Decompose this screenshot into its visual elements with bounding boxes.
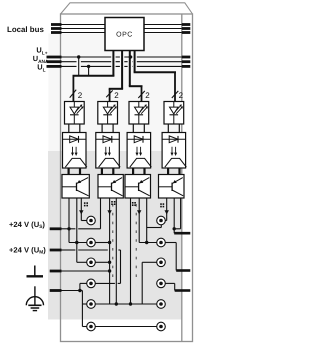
dashed separator line right <box>135 204 137 281</box>
+24V U_S feed line <box>50 228 101 230</box>
wire drop from rail U_L to ch1 bundle <box>87 65 90 75</box>
terminal point 1.2 <box>87 238 96 247</box>
PE feed line branching to terminals 1.4, 1.5, 1.6 <box>50 283 87 326</box>
terminal point 1.3 <box>87 258 96 267</box>
optocoupler box channel 2 <box>96 133 120 169</box>
wire LED box to optocoupler channel 1 <box>69 124 80 133</box>
link terminal 2.4 to right PE stub <box>165 283 190 290</box>
svg-text:+24 V (UM): +24 V (UM) <box>9 245 46 255</box>
wire OPC to ch4 (2-wire bundle) <box>134 51 176 102</box>
svg-text:OPC: OPC <box>116 32 133 39</box>
wire ch3 output w1 to row5 bus <box>130 198 132 304</box>
wire ch2 output w1 to U_S line <box>100 198 102 229</box>
wire ch1 output w2 to terminal 1.3 <box>77 198 87 262</box>
wire OPC to ch2 (2-wire bundle) <box>109 51 123 102</box>
wire LED box to optocoupler channel 4 <box>168 124 179 133</box>
gray area right edge line <box>181 14 183 342</box>
grid mark ch2 <box>111 201 115 205</box>
GND feed line <box>50 269 112 272</box>
wire ch4 output w2 to right supply stub <box>173 198 175 233</box>
svg-text:2: 2 <box>179 91 184 100</box>
grid mark ch4 <box>160 203 164 207</box>
grid mark ch1 <box>84 202 88 206</box>
svg-text:2: 2 <box>114 91 119 100</box>
dashed separator line left <box>112 204 114 281</box>
junction dot rail U_L+ ch3 drop <box>129 55 132 58</box>
protective earth symbol <box>26 286 43 310</box>
wire ch2 output w3 to row5 bus with GND tap <box>115 198 117 304</box>
+24V U_M feed line to terminal 1.4 <box>50 250 121 283</box>
wire crossing gaps on rails <box>77 56 137 68</box>
wire LED box to optocoupler channel 3 <box>133 124 144 133</box>
module top face <box>61 3 193 14</box>
wire ch4 output w3 joins w2 <box>173 198 181 231</box>
rail U_ANA <box>47 61 191 63</box>
wire optocoupler to amplifier channel 1 <box>69 168 80 175</box>
amplifier transistor box Q2 <box>98 175 123 199</box>
svg-text:+24 V (US): +24 V (US) <box>9 220 45 230</box>
wire optocoupler to amplifier channel 4 <box>168 168 179 175</box>
terminal point 2.2 <box>157 238 166 247</box>
light module interior background <box>48 34 182 152</box>
wire ch1 output w3 (arrow) to terminal 1.1 <box>79 198 87 221</box>
joint terminal 1.3 right segment to ch2 w2 <box>95 261 111 264</box>
terminal point 2.1 <box>157 216 166 225</box>
gray terminal background <box>48 151 182 320</box>
terminal point 2.3 <box>157 258 166 267</box>
terminal point 1.4 <box>87 279 96 288</box>
LED indicator box channel 4 <box>164 102 184 125</box>
riser from row5 bus to terminal 2.3 <box>142 262 157 304</box>
junction dot ch1 w2 on row2 line <box>75 241 78 244</box>
slash 2-mark ch1 <box>70 90 83 100</box>
wire LED box to optocoupler channel 2 <box>102 124 113 133</box>
rail U_L+ <box>47 56 191 58</box>
wire ch3 output w3 joins row2 line and terminal 2.1 <box>145 198 161 244</box>
bus row5 <box>95 302 157 305</box>
wire OPC to ch3 (2-wire bundle) <box>129 51 143 102</box>
local bus line 3 <box>51 32 190 34</box>
svg-text:2: 2 <box>145 91 150 100</box>
LED indicator box channel 1 <box>65 102 85 125</box>
LED indicator box channel 2 <box>98 102 118 125</box>
terminal point 2.4 <box>157 279 166 288</box>
module body front face <box>61 14 193 342</box>
slash 2-mark ch3 <box>138 91 150 100</box>
terminal point 2.5 <box>157 300 166 309</box>
rail U_L <box>47 65 191 67</box>
amplifier transistor box Q3 <box>125 175 151 199</box>
optocoupler box channel 3 <box>127 133 151 169</box>
wire ch2 output w2 (arrow) through terminal row3 joint to row5 bus <box>107 198 111 304</box>
optocoupler box channel 4 <box>162 133 186 169</box>
terminal point 1.1 <box>87 216 96 225</box>
wire ch3 output w2 (arrow) to terminal 2.2 <box>137 198 157 243</box>
svg-text:UL+: UL+ <box>36 46 47 57</box>
bus row6 <box>95 326 157 328</box>
LED indicator box channel 3 <box>129 102 149 125</box>
ground symbol <box>27 266 44 277</box>
wire OPC to ch1 (2-wire bundle) <box>73 51 115 102</box>
junction dot ch1 w1 / U_S <box>67 227 70 230</box>
link terminal 2.2 to right GND stub <box>165 243 190 271</box>
wire ch1 output w1 to U_S tap and terminal 1.2 <box>69 198 111 244</box>
local bus line 1 <box>51 24 190 26</box>
svg-text:2: 2 <box>78 91 83 100</box>
amplifier transistor box Q4 <box>159 175 185 199</box>
local bus line 2 <box>51 28 190 30</box>
slash 2-mark ch2 <box>106 90 119 100</box>
grid mark ch3 <box>132 202 136 206</box>
svg-text:Local bus: Local bus <box>7 25 44 34</box>
optocoupler box channel 1 <box>63 133 87 169</box>
amplifier transistor box Q1 <box>62 175 89 199</box>
thick supply stub right edge y233 <box>174 232 190 235</box>
terminal point 2.6 <box>157 322 166 331</box>
slash 2-mark ch4 <box>172 91 184 100</box>
terminal point 1.6 <box>87 322 96 331</box>
wire drop from rail U_L+ to ch1 bundle <box>77 55 80 75</box>
OPC box U1 <box>105 18 144 51</box>
wire optocoupler to amplifier channel 2 <box>102 168 113 175</box>
wire optocoupler to amplifier channel 3 <box>133 168 144 175</box>
terminal point 1.5 <box>87 300 96 309</box>
wire ch4 output w1 (arrow) to terminal 2.1 <box>165 198 169 221</box>
